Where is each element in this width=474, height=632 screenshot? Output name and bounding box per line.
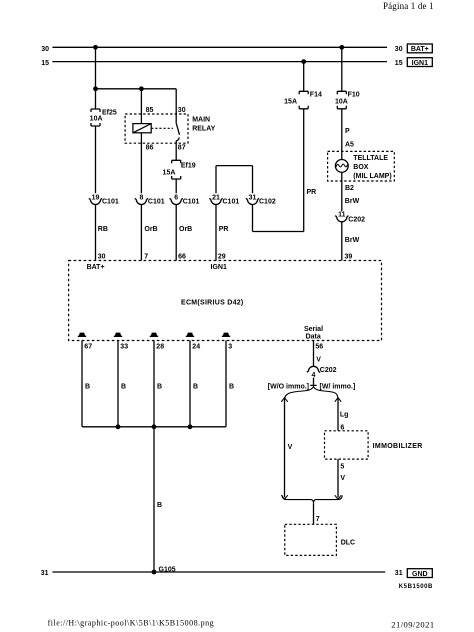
svg-text:C101: C101 bbox=[102, 199, 119, 206]
svg-text:B2: B2 bbox=[345, 185, 354, 192]
svg-text:IGN1: IGN1 bbox=[211, 264, 227, 271]
svg-text:B: B bbox=[157, 384, 162, 391]
svg-text:C101: C101 bbox=[148, 199, 165, 206]
svg-text:30: 30 bbox=[98, 254, 106, 261]
svg-text:ECM(SIRIUS D42): ECM(SIRIUS D42) bbox=[181, 299, 244, 306]
svg-text:C202: C202 bbox=[348, 216, 365, 223]
svg-text:F10: F10 bbox=[348, 91, 360, 98]
svg-text:85: 85 bbox=[146, 107, 154, 114]
svg-text:C101: C101 bbox=[223, 199, 240, 206]
svg-text:DLC: DLC bbox=[341, 540, 355, 547]
svg-text:[W/ immo.]: [W/ immo.] bbox=[320, 383, 356, 390]
svg-text:31: 31 bbox=[249, 194, 257, 201]
svg-text:4: 4 bbox=[312, 372, 316, 379]
svg-text:Serial: Serial bbox=[304, 326, 323, 333]
svg-text:8: 8 bbox=[139, 194, 143, 201]
svg-text:V: V bbox=[288, 444, 293, 451]
svg-text:C202: C202 bbox=[320, 367, 337, 374]
svg-text:7: 7 bbox=[316, 516, 320, 523]
svg-text:86: 86 bbox=[146, 145, 154, 152]
svg-text:67: 67 bbox=[84, 343, 92, 350]
svg-text:B: B bbox=[193, 384, 198, 391]
svg-text:(MIL LAMP): (MIL LAMP) bbox=[353, 173, 391, 180]
svg-text:G105: G105 bbox=[159, 566, 176, 573]
svg-text:GND: GND bbox=[412, 571, 428, 578]
svg-text:B: B bbox=[85, 384, 90, 391]
svg-text:15A: 15A bbox=[163, 169, 176, 176]
svg-text:C101: C101 bbox=[183, 199, 200, 206]
svg-text:11: 11 bbox=[338, 212, 346, 219]
svg-text:Ef19: Ef19 bbox=[181, 163, 196, 170]
svg-text:file://H:\graphic-pool\K\5B\1\: file://H:\graphic-pool\K\5B\1\K5B15008.p… bbox=[48, 618, 215, 627]
svg-text:RELAY: RELAY bbox=[192, 125, 215, 132]
svg-text:Página 1 de 1: Página 1 de 1 bbox=[383, 1, 434, 11]
svg-text:IGN1: IGN1 bbox=[412, 60, 428, 67]
svg-text:B: B bbox=[229, 384, 234, 391]
svg-text:BOX: BOX bbox=[353, 164, 369, 171]
svg-text:B: B bbox=[121, 384, 126, 391]
svg-text:Ef25: Ef25 bbox=[102, 110, 117, 117]
svg-text:21: 21 bbox=[212, 194, 220, 201]
svg-text:BrW: BrW bbox=[345, 237, 360, 244]
svg-text:3: 3 bbox=[228, 343, 232, 350]
svg-text:C102: C102 bbox=[259, 199, 276, 206]
svg-text:15A: 15A bbox=[284, 98, 297, 105]
svg-text:V: V bbox=[340, 475, 345, 482]
svg-text:19: 19 bbox=[92, 194, 100, 201]
svg-text:39: 39 bbox=[345, 254, 353, 261]
svg-text:30: 30 bbox=[395, 46, 403, 53]
svg-text:31: 31 bbox=[41, 570, 49, 577]
svg-text:24: 24 bbox=[192, 343, 200, 350]
svg-text:B: B bbox=[157, 502, 162, 509]
svg-text:29: 29 bbox=[218, 254, 226, 261]
svg-text:A5: A5 bbox=[345, 141, 354, 148]
svg-text:OrB: OrB bbox=[179, 226, 192, 233]
svg-text:Lg: Lg bbox=[340, 412, 349, 419]
svg-text:OrB: OrB bbox=[144, 226, 157, 233]
svg-text:7: 7 bbox=[144, 254, 148, 261]
svg-text:30: 30 bbox=[41, 46, 49, 53]
svg-text:5: 5 bbox=[340, 463, 344, 470]
svg-text:21/09/2021: 21/09/2021 bbox=[391, 619, 434, 629]
svg-text:[W/O immo.]: [W/O immo.] bbox=[268, 383, 309, 390]
svg-text:33: 33 bbox=[120, 343, 128, 350]
svg-text:BrW: BrW bbox=[345, 198, 360, 205]
svg-text:PR: PR bbox=[307, 189, 317, 196]
svg-text:15: 15 bbox=[41, 60, 49, 67]
svg-text:56: 56 bbox=[315, 344, 323, 351]
svg-text:BAT+: BAT+ bbox=[411, 46, 429, 53]
svg-text:28: 28 bbox=[156, 343, 164, 350]
svg-text:K5B1500B: K5B1500B bbox=[399, 584, 433, 590]
svg-text:30: 30 bbox=[178, 107, 186, 114]
svg-text:87: 87 bbox=[178, 145, 186, 152]
svg-text:P: P bbox=[345, 128, 350, 135]
svg-text:BAT+: BAT+ bbox=[87, 264, 105, 271]
svg-text:MAIN: MAIN bbox=[192, 117, 210, 124]
svg-text:TELLTALE: TELLTALE bbox=[353, 155, 388, 162]
svg-text:F14: F14 bbox=[310, 91, 322, 98]
svg-text:Data: Data bbox=[306, 333, 321, 340]
svg-text:10A: 10A bbox=[90, 115, 103, 122]
svg-text:15: 15 bbox=[395, 60, 403, 67]
svg-text:PR: PR bbox=[219, 226, 229, 233]
svg-text:6: 6 bbox=[340, 424, 344, 431]
svg-text:V: V bbox=[316, 356, 321, 363]
svg-text:RB: RB bbox=[98, 226, 108, 233]
svg-text:31: 31 bbox=[395, 570, 403, 577]
svg-text:10A: 10A bbox=[335, 98, 348, 105]
svg-text:66: 66 bbox=[178, 254, 186, 261]
svg-text:6: 6 bbox=[174, 194, 178, 201]
svg-text:IMMOBILIZER: IMMOBILIZER bbox=[373, 443, 423, 450]
